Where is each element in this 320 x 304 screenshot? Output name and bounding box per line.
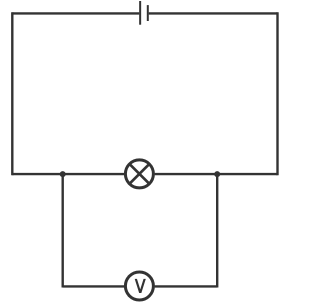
wire: right branch down (right node to bottom-right corner) xyxy=(216,174,218,287)
voltmeter (circle with letter V) xyxy=(125,272,153,300)
wire: bottom left segment (bottom-left corner to voltmeter) xyxy=(63,285,124,287)
wire: top left segment (from top-left corner to battery) xyxy=(12,12,139,14)
wire: bottom right segment (voltmeter to bottom-right corner) xyxy=(155,285,218,287)
battery cell: short plate (right) xyxy=(147,5,149,21)
wire: middle rail left segment (left corner to lamp) xyxy=(12,173,124,175)
wire: top right segment (from battery to top-right corner) xyxy=(149,12,278,14)
wire: left side (top-left corner down to middle rail) xyxy=(11,12,13,175)
wire: middle rail right segment (lamp to right corner) xyxy=(155,173,278,175)
wire: left branch down (left node to bottom-left corner) xyxy=(62,174,64,287)
battery cell: long plate (left) xyxy=(139,1,141,25)
junction dot: left node xyxy=(60,171,66,177)
wire: right side (top-right corner down to middle rail) xyxy=(276,12,278,175)
junction dot: right node xyxy=(214,171,220,177)
lamp (circle with diagonal cross) xyxy=(125,160,153,188)
